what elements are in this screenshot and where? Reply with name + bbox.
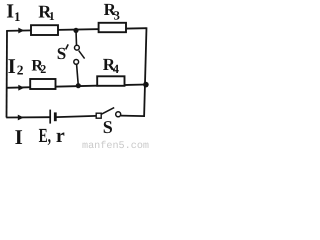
- label R1: [38, 2, 55, 24]
- resistor R3: [99, 23, 126, 32]
- node: junction of middle net and right vertical: [143, 82, 149, 88]
- svg-text:E,: E,: [39, 125, 52, 147]
- node: junction of S' on middle net: [76, 83, 81, 88]
- wire: bottom horizontal net, left segment to battery: [6, 116, 49, 118]
- wire: top horizontal net (node row 1): [6, 28, 146, 31]
- label I1: [6, 0, 20, 23]
- svg-text:r: r: [56, 125, 65, 147]
- wire: bottom horizontal net, battery to switch S: [56, 116, 96, 117]
- svg-text:4: 4: [113, 62, 120, 76]
- battery E,r: [50, 110, 55, 124]
- wire: left vertical branch: [6, 31, 9, 118]
- current arrow I1: [18, 28, 24, 34]
- watermark manfen5.com: [82, 140, 149, 152]
- switch S' (vertical, open): [74, 30, 85, 85]
- wire: middle horizontal net (node row 2): [6, 85, 146, 88]
- svg-text:2: 2: [17, 62, 24, 77]
- label S: [103, 117, 113, 137]
- label R3: [104, 0, 120, 22]
- current arrow I2: [18, 85, 24, 91]
- svg-text:I: I: [15, 125, 23, 149]
- svg-text:1: 1: [49, 9, 55, 23]
- label E,r (battery value): [39, 125, 65, 147]
- label R2: [31, 57, 46, 76]
- current arrow I (battery branch): [18, 115, 24, 121]
- switch S (bottom, open): [96, 108, 121, 119]
- label I2: [8, 54, 24, 78]
- svg-text:S: S: [57, 44, 66, 63]
- node: junction of R1/R3/S' on top net: [73, 28, 78, 33]
- svg-text:I: I: [6, 0, 14, 22]
- wire: bottom horizontal net, switch S to right corner: [121, 115, 145, 118]
- svg-text:I: I: [8, 54, 16, 78]
- svg-text:2: 2: [40, 62, 46, 76]
- resistor R1: [31, 25, 58, 35]
- resistor R2: [30, 79, 55, 89]
- svg-text:1: 1: [14, 9, 21, 24]
- wire: right vertical branch: [144, 27, 146, 117]
- label I (battery current): [15, 125, 23, 149]
- svg-text:3: 3: [114, 8, 120, 22]
- label R4: [103, 55, 120, 76]
- svg-text:S: S: [103, 117, 113, 137]
- svg-text:manfen5.com: manfen5.com: [82, 140, 149, 150]
- label S': [57, 44, 68, 63]
- resistor R4: [97, 76, 124, 86]
